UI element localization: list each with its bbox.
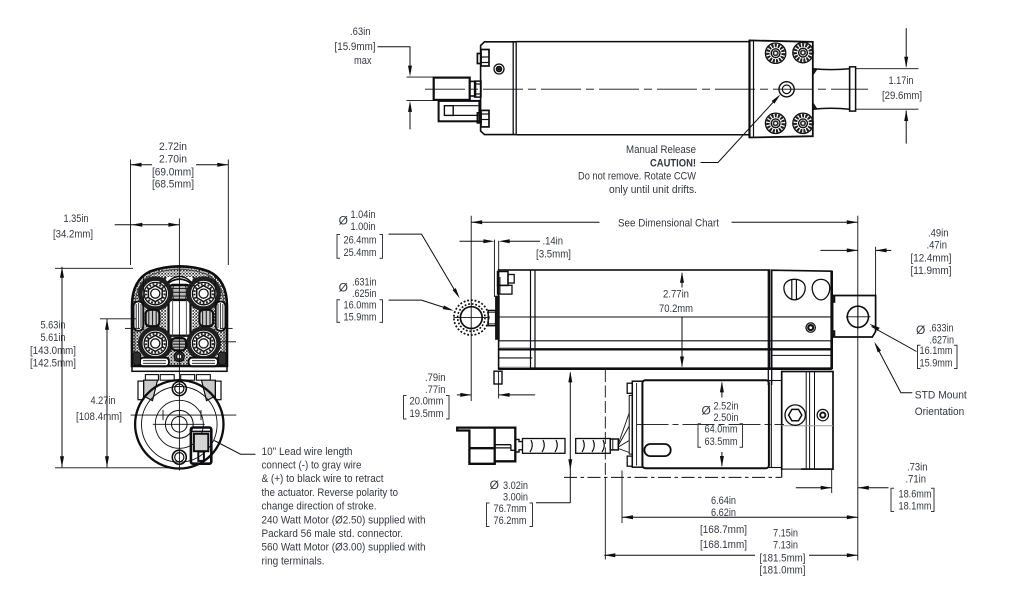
svg-text:.625in: .625in	[352, 288, 377, 300]
top view: manual release screw	[779, 82, 794, 97]
main view: packard connector	[457, 428, 515, 464]
left view: left side window slot	[146, 310, 160, 326]
left view: left edge slot	[134, 302, 144, 331]
top view: lead-wire connector lower shell	[439, 101, 480, 121]
svg-text:[15.9mm]: [15.9mm]	[335, 41, 376, 53]
left view: motor top bolt hole	[172, 382, 186, 396]
left view: motor concentric circle r14	[165, 410, 193, 438]
svg-text:25.4mm: 25.4mm	[344, 247, 377, 259]
svg-text:1.00in: 1.00in	[351, 221, 376, 233]
svg-text:6.64in: 6.64in	[711, 495, 736, 507]
dim .73in arrows	[796, 487, 832, 489]
svg-text:560 Watt Motor (Ø3.00) supplie: 560 Watt Motor (Ø3.00) supplied with	[262, 542, 426, 554]
dim .73in extension line	[831, 470, 833, 494]
main view: housing step to phantom line	[781, 469, 783, 477]
dim .631in leader to eye bore	[389, 300, 451, 310]
svg-text:.79in: .79in	[425, 372, 446, 384]
main view: body internal line mid	[499, 340, 832, 342]
svg-text:CAUTION!: CAUTION!	[650, 158, 696, 170]
svg-text:2.50in: 2.50in	[714, 412, 739, 424]
left view: motor adapter tabs	[145, 375, 158, 381]
svg-text:18.6mm: 18.6mm	[899, 488, 932, 500]
svg-text:[69.0mm]: [69.0mm]	[152, 166, 194, 178]
main view: lower gearbox housing	[782, 372, 833, 470]
top view: motor cylinder body	[516, 42, 749, 135]
dim 1.35in dimension line with arrows	[115, 224, 180, 226]
top view: shaft root retaining marks	[813, 69, 817, 74]
main view: egg feature right	[812, 279, 830, 300]
main view: eye horizontal crosshair	[454, 317, 490, 319]
left view: center rectangular slot	[169, 300, 191, 336]
main view: rear gearbox block	[767, 270, 769, 385]
svg-text:2.70in: 2.70in	[159, 153, 187, 165]
left view: bottom center pin circle	[174, 352, 184, 362]
main view: motor brush top	[627, 383, 632, 393]
svg-text:STD Mount: STD Mount	[915, 390, 967, 402]
left view: center barrel boss	[170, 285, 190, 300]
main view: front mounting plate (edge-on)	[496, 296, 500, 339]
left view: housing bottom flange	[132, 366, 227, 371]
main view: motor can	[642, 380, 769, 468]
main view: front rod eye outer ring (knurled)	[454, 300, 489, 335]
svg-text:Ø: Ø	[339, 281, 348, 295]
svg-text:26.4mm: 26.4mm	[344, 235, 377, 247]
dim 5.63in top extension line	[55, 267, 133, 269]
main view: front cap internal line	[499, 357, 533, 359]
dim 2.77in 70.2mm - line with arrows	[681, 273, 683, 288]
svg-text:connect (-) to gray wire: connect (-) to gray wire	[262, 460, 362, 472]
left view: connector leader line	[214, 441, 255, 455]
top view: lead-wire connector upper shell	[434, 78, 470, 100]
ext line: front eye centerline	[470, 216, 472, 401]
top view: gearbox bolt lower-right	[793, 113, 813, 133]
main view: rear mount eye	[847, 306, 868, 327]
dim 1.17in dimension line with arrows	[905, 28, 907, 66]
main view: connector wire stub	[515, 439, 522, 452]
left view: hidden edge line in dome	[143, 275, 145, 308]
svg-text:Do not remove. Rotate CCW: Do not remove. Rotate CCW	[578, 171, 697, 183]
left view: hex bolt top-right	[189, 279, 219, 309]
svg-text:7.15in: 7.15in	[773, 527, 798, 539]
main view: actuator body tube	[499, 270, 770, 369]
main view: motor rear flange strip)	[770, 381, 772, 468]
svg-text:240 Watt Motor (Ø2.50) supplie: 240 Watt Motor (Ø2.50) supplied with	[262, 514, 426, 526]
svg-text:Ø: Ø	[702, 404, 711, 418]
svg-text:10" Lead wire length: 10" Lead wire length	[262, 446, 353, 458]
dim 6.64in left extension line	[621, 471, 623, 524]
svg-text:2.77in: 2.77in	[663, 289, 689, 301]
dim .49in extension line (tab rear face)	[875, 247, 877, 295]
svg-text:4.27in: 4.27in	[91, 395, 116, 407]
svg-text:ring terminals.: ring terminals.	[262, 555, 325, 567]
dim 1.17in extension lines	[856, 68, 919, 70]
top view: end cap top mounting tab	[481, 50, 489, 67]
main view: terminal fan lines	[618, 413, 629, 444]
main view: motor oval slot	[644, 444, 670, 456]
svg-text:Orientation: Orientation	[915, 406, 965, 418]
svg-text:76.2mm: 76.2mm	[494, 515, 527, 527]
svg-text:.633in: .633in	[929, 323, 954, 335]
svg-text:Ø: Ø	[490, 478, 499, 492]
svg-text:& (+) to black wire to retract: & (+) to black wire to retract	[262, 473, 384, 485]
main view: motor brush bottom	[627, 456, 632, 466]
svg-text:max: max	[354, 55, 372, 67]
left view: hex bolt bottom-left	[140, 328, 170, 358]
svg-text:only until unit drifts.: only until unit drifts.	[609, 184, 697, 196]
svg-text:[34.2mm]: [34.2mm]	[53, 229, 93, 241]
main view: gearbox internal line	[772, 316, 832, 318]
svg-text:Manual Release: Manual Release	[626, 144, 696, 156]
main view: manual release egg (slotted)	[784, 279, 805, 300]
svg-text:76.7mm: 76.7mm	[494, 503, 527, 515]
svg-text:.77in: .77in	[425, 384, 446, 396]
main view: body internal line upper	[499, 316, 770, 318]
left view: motor center crosshair	[153, 423, 205, 425]
dim 7.15in dimension line with arrows	[604, 554, 755, 556]
svg-text:3.00in: 3.00in	[503, 492, 528, 504]
svg-text:1.17in: 1.17in	[889, 75, 914, 87]
main view: motor centerline	[637, 423, 785, 425]
left view: motor concentric circle r24	[155, 400, 203, 448]
left view: right edge slot	[216, 302, 226, 331]
svg-text:.47in: .47in	[927, 239, 948, 251]
top view: motor end cap	[481, 42, 517, 135]
dim .14in [3.5mm] - arrows and extensions	[493, 240, 495, 297]
left view: dome interior worm-gear arcs	[164, 277, 195, 288]
svg-text:7.13in: 7.13in	[773, 540, 798, 552]
dim .49in arrows	[820, 249, 857, 251]
dim 2.72in left extension line	[130, 160, 132, 266]
svg-text:15.9mm: 15.9mm	[920, 357, 953, 369]
left view: bottom corner bosses	[133, 352, 141, 365]
svg-text:change direction of stroke.: change direction of stroke.	[262, 501, 377, 513]
svg-text:[29.6mm]: [29.6mm]	[882, 90, 922, 102]
left view: adapter right wing	[202, 380, 216, 400]
note: caution leader arrow to release screw	[701, 98, 778, 163]
main view: front plate lower tab	[494, 371, 502, 384]
svg-text:[3.5mm]: [3.5mm]	[536, 248, 571, 260]
main view: lower housing hex bolt	[785, 405, 805, 425]
left view: right side window slot	[199, 310, 213, 326]
svg-text:.71in: .71in	[906, 473, 927, 485]
top view: extension tube (shaft)	[813, 68, 850, 71]
dim .63in extension ticks	[407, 76, 434, 78]
left view: bottom center oval boss	[172, 338, 187, 350]
main view: motor terminal block	[610, 439, 618, 450]
dim 6.64in dimension line with arrows	[622, 516, 858, 518]
svg-text:[142.5mm]: [142.5mm]	[30, 357, 76, 369]
main view: lower housing gray line	[782, 425, 833, 427]
main view: phantom 3.00 motor dash-dot line	[564, 476, 782, 478]
ext line: rear pin centerline (long)	[857, 216, 859, 561]
left view: gearbox housing end-view outline	[132, 266, 227, 366]
main view: rear eye crosshair	[846, 316, 871, 318]
dim 5.63in dimension line with arrows	[61, 267, 63, 468]
svg-text:.49in: .49in	[928, 227, 949, 239]
main view: rear mount tab	[833, 296, 876, 338]
top view: gearbox block	[748, 40, 750, 137]
svg-text:[12.4mm]: [12.4mm]	[911, 252, 952, 264]
svg-text:[168.7mm]: [168.7mm]	[700, 524, 747, 536]
top view: end cap bottom mounting tab	[481, 110, 489, 127]
left view: bottom-left wide slot	[140, 358, 169, 367]
dim 5.63in bottom extension line	[55, 467, 174, 469]
svg-text:2.52in: 2.52in	[714, 401, 739, 413]
svg-text:[68.5mm]: [68.5mm]	[152, 179, 194, 191]
svg-text:the actuator. Reverse polarity: the actuator. Reverse polarity to	[262, 487, 399, 499]
svg-text:[168.1mm]: [168.1mm]	[700, 539, 747, 551]
left view: motor concentric circle r38	[142, 387, 218, 463]
svg-text:Ø: Ø	[339, 213, 348, 227]
dim 1.04in leader to eye ring	[389, 234, 458, 295]
svg-text:[181.0mm]: [181.0mm]	[760, 564, 806, 576]
dim .79in - arrows	[457, 394, 471, 396]
top view: gearbox bolt upper-left	[765, 43, 785, 63]
svg-text:[11.9mm]: [11.9mm]	[911, 265, 952, 277]
left view: power connector (end view)	[191, 428, 211, 464]
top view: centerline	[425, 88, 868, 90]
note: STD mount orientation leader	[876, 345, 913, 393]
svg-text:16.1mm: 16.1mm	[920, 345, 953, 357]
main view: wire segment 1	[523, 439, 566, 454]
left view: motor bottom bolt hole	[172, 450, 186, 464]
main view: rear mount corner nubs	[831, 296, 835, 302]
left view: vertical centerline	[178, 219, 180, 471]
svg-text:Packard 56 male std. connector: Packard 56 male std. connector.	[262, 528, 404, 540]
dim .63in leader and arrows	[378, 47, 411, 71]
svg-text:20.0mm: 20.0mm	[410, 396, 444, 408]
main view: front rod eye bore	[460, 307, 482, 329]
svg-text:1.04in: 1.04in	[351, 209, 376, 221]
left view: housing horizontal tick left	[125, 327, 140, 329]
left view: bottom-right wide slot	[189, 358, 218, 367]
left view: motor bolt-pattern crosshair	[131, 414, 237, 416]
left view: hex bolt bottom-right	[189, 328, 219, 358]
dim 4.27in top extension line	[100, 318, 136, 320]
dim .79in - right extension line	[498, 371, 500, 399]
dim 3.02in dimension line with arrows	[569, 373, 571, 503]
svg-text:2.72in: 2.72in	[159, 141, 187, 153]
svg-text:.63in: .63in	[350, 26, 371, 38]
left view: adapter left wing	[144, 380, 158, 400]
svg-text:70.2mm: 70.2mm	[659, 303, 693, 315]
dim 2.72in right extension line	[227, 160, 229, 266]
svg-text:[143.0mm]: [143.0mm]	[30, 345, 76, 357]
svg-text:18.1mm: 18.1mm	[899, 500, 932, 512]
svg-text:1.35in: 1.35in	[64, 213, 89, 225]
main view: eye boss	[488, 310, 495, 325]
svg-text:19.5mm: 19.5mm	[410, 408, 444, 420]
left view: motor concentric circle r8	[172, 417, 188, 433]
top view: gearbox bolt upper-right	[793, 42, 813, 62]
top view: gearbox bolt lower-left	[765, 113, 785, 133]
top view: end cap bolt	[494, 64, 504, 74]
svg-text:[181.5mm]: [181.5mm]	[760, 552, 806, 564]
svg-text:16.0mm: 16.0mm	[344, 300, 377, 312]
main view: front clevis bolt head	[498, 272, 509, 286]
top view: wire entry boss	[475, 81, 481, 97]
main view: front rod eye inner ring (knurled)	[458, 304, 485, 331]
svg-text:.14in: .14in	[543, 235, 564, 247]
svg-text:3.02in: 3.02in	[503, 480, 528, 492]
main view: front cap double line	[530, 270, 532, 369]
svg-text:Ø: Ø	[916, 323, 925, 337]
svg-text:15.9mm: 15.9mm	[344, 311, 377, 323]
left view: motor can circle	[135, 380, 223, 468]
left view: hex bolt top-left	[140, 279, 170, 309]
main view: gearbox small screw	[806, 323, 815, 332]
svg-text:64.0mm: 64.0mm	[705, 424, 738, 436]
svg-text:63.5mm: 63.5mm	[705, 436, 738, 448]
dim 2.72in dimension line with arrows	[131, 164, 153, 166]
main view: body internal thick band	[499, 348, 832, 350]
svg-text:[108.4mm]: [108.4mm]	[76, 411, 122, 423]
left view: housing horizontal tick right	[220, 327, 232, 329]
main view: lower housing small screw	[817, 409, 828, 420]
main view: cap gray accents	[500, 347, 531, 349]
svg-text:.73in: .73in	[907, 461, 928, 473]
dim 4.27in dimension line with arrows	[106, 319, 108, 468]
dim 7.15in left extension line	[604, 370, 606, 477]
dim .633in leader to rear eye	[872, 327, 917, 352]
main view: wire segment 2	[576, 439, 611, 454]
svg-text:.631in: .631in	[352, 277, 377, 289]
dim see dimensional chart - line and arrows	[471, 221, 599, 223]
dim 2.52in dimension line with arrows	[721, 383, 723, 398]
dim 3.02in leader to text	[536, 502, 570, 504]
main view: motor brush strip	[629, 395, 632, 454]
main view: motor front ring band	[632, 381, 642, 467]
svg-text:See Dimensional Chart: See Dimensional Chart	[618, 218, 719, 230]
